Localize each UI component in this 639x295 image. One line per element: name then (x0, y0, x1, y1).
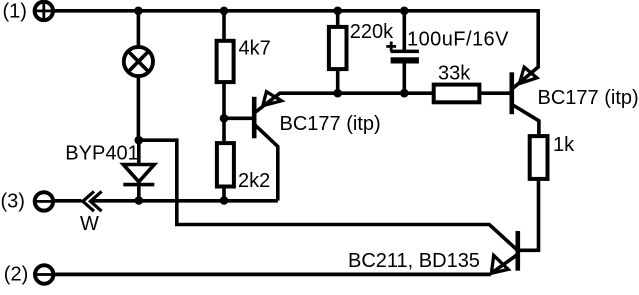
svg-text:BC177 (itp): BC177 (itp) (538, 87, 639, 109)
svg-text:(3): (3) (1, 191, 25, 213)
svg-text:BYP401: BYP401 (65, 143, 138, 165)
svg-text:W: W (80, 213, 99, 235)
svg-text:33k: 33k (438, 63, 471, 85)
svg-text:BC177 (itp): BC177 (itp) (280, 113, 381, 135)
svg-text:100uF/16V: 100uF/16V (407, 28, 509, 50)
svg-text:BC211, BD135: BC211, BD135 (348, 250, 480, 272)
svg-text:4k7: 4k7 (239, 38, 271, 60)
svg-text:(2): (2) (4, 263, 28, 285)
svg-text:220k: 220k (350, 21, 394, 43)
svg-text:1k: 1k (553, 134, 575, 156)
svg-text:2k2: 2k2 (238, 170, 270, 192)
svg-text:(1): (1) (3, 1, 27, 23)
